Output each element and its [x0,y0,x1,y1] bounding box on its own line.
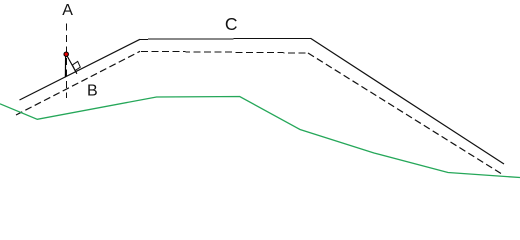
solid upper slope: left ascending segment [20,39,141,100]
svg-text:B: B [87,83,98,100]
red point [64,52,68,56]
dashed lower slope: right descending segment [308,53,501,174]
svg-text:A: A [62,2,73,19]
solid upper slope: right descending segment [311,38,505,164]
dashed lower slope: flat top segment [141,51,309,53]
green ground line [0,97,520,178]
dashed vertical line under A [65,24,67,99]
solid upper slope: flat top segment [140,38,311,39]
perpendicular segment from red point to slope [66,55,77,74]
right-angle marker square [72,61,80,70]
vertical drop segment from red point down to slope [64,55,66,77]
svg-text:C: C [225,14,238,34]
dashed lower slope: left ascending segment [16,51,140,115]
